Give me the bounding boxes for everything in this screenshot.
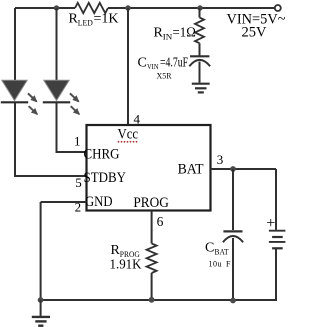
wire Vcc pin 4 bbox=[127, 8, 129, 125]
wire R_PROG to rail bbox=[151, 273, 153, 300]
ground main bbox=[32, 300, 50, 326]
wire GND pin 2 horizontal bbox=[41, 201, 87, 203]
svg-text:IN: IN bbox=[163, 32, 173, 42]
label C_BAT 10uF bbox=[205, 241, 231, 269]
pin number 3 bbox=[217, 152, 224, 167]
capacitor C_BAT bbox=[223, 231, 243, 301]
wire LED2 to CHRG pin 1 bbox=[56, 151, 87, 153]
svg-text:C: C bbox=[138, 56, 147, 71]
wire LED1 anode from rail bbox=[14, 8, 16, 81]
wire BAT pin 3 to battery bbox=[211, 168, 277, 170]
wire bottom rail bbox=[41, 299, 276, 301]
node junction dot at R_LED left bbox=[54, 5, 59, 10]
wire LED1 cathode down bbox=[14, 103, 16, 176]
label CHRG pin name bbox=[84, 147, 120, 163]
svg-text:STDBY: STDBY bbox=[84, 170, 127, 186]
label R_LED=1K bbox=[69, 12, 119, 28]
node junction dot R_PROG bottom bbox=[149, 297, 155, 303]
svg-text:+: + bbox=[266, 215, 275, 232]
label R_IN=1ohm bbox=[154, 26, 197, 42]
LED D2 bbox=[43, 80, 79, 114]
label C_VIN=4.7uF bbox=[138, 55, 189, 81]
node junction dot bottom left bbox=[38, 297, 44, 303]
svg-text:=1Ω: =1Ω bbox=[173, 26, 197, 41]
label battery plus bbox=[266, 215, 275, 232]
svg-text:BAT: BAT bbox=[178, 162, 204, 178]
svg-text:X5R: X5R bbox=[157, 71, 172, 81]
svg-text:LED: LED bbox=[78, 18, 93, 28]
svg-text:=4.7uF: =4.7uF bbox=[160, 55, 188, 70]
resistor R_PROG zigzag bbox=[147, 244, 157, 274]
svg-text:=1K: =1K bbox=[94, 12, 119, 27]
label R_PROG 1.91K bbox=[110, 243, 142, 273]
node junction dot at Vcc branch bbox=[125, 5, 130, 10]
pin number 5 bbox=[75, 175, 82, 190]
pin number 1 bbox=[74, 134, 81, 149]
wire top rail left segment bbox=[15, 7, 75, 9]
svg-text:6: 6 bbox=[157, 214, 164, 229]
svg-text:BAT: BAT bbox=[215, 248, 229, 257]
svg-text:5: 5 bbox=[75, 175, 82, 190]
battery BT1 bbox=[269, 231, 286, 249]
label BAT pin name bbox=[178, 162, 204, 178]
pin number 4 bbox=[134, 112, 141, 127]
wire LED2 cathode down bbox=[56, 103, 58, 152]
label STDBY pin name bbox=[84, 170, 127, 186]
pin number 2 bbox=[75, 200, 82, 215]
svg-text:C: C bbox=[205, 241, 214, 256]
wire LED1 to STDBY pin 5 bbox=[14, 175, 87, 177]
node junction dot at C_BAT top bbox=[230, 166, 236, 172]
svg-text:25V: 25V bbox=[242, 25, 267, 41]
LED D1 bbox=[1, 80, 37, 114]
node junction dot C_BAT bottom bbox=[230, 298, 236, 304]
wire battery bottom bbox=[275, 249, 277, 301]
wire GND pin 2 vertical bbox=[40, 202, 42, 300]
svg-text:Vcc: Vcc bbox=[118, 127, 139, 143]
label Vcc with dotted underline bbox=[118, 127, 139, 143]
svg-text:1: 1 bbox=[74, 134, 81, 149]
wire battery drop bbox=[275, 169, 277, 230]
svg-text:PROG: PROG bbox=[133, 195, 169, 211]
svg-text:GND: GND bbox=[85, 194, 113, 210]
resistor R_IN zigzag bbox=[195, 18, 204, 44]
svg-text:F: F bbox=[226, 260, 231, 269]
node junction dot at R_IN branch bbox=[197, 5, 202, 10]
resistor R_LED zigzag bbox=[75, 3, 108, 13]
pin number 6 bbox=[157, 214, 164, 229]
svg-text:1.91K: 1.91K bbox=[110, 258, 142, 273]
wire R_IN top stub bbox=[199, 8, 201, 18]
wire C_BAT top bbox=[232, 169, 234, 230]
wire PROG pin 6 bbox=[151, 211, 153, 244]
wire R_IN to C_VIN bbox=[199, 43, 201, 55]
wire LED2 anode from rail bbox=[56, 8, 58, 81]
label GND pin name bbox=[85, 194, 113, 210]
svg-text:3: 3 bbox=[217, 152, 224, 167]
wire top rail right segment bbox=[108, 7, 275, 9]
ground for C_VIN bbox=[192, 84, 210, 93]
label VIN=5V~ 25V bbox=[227, 12, 286, 41]
IC U1 body bbox=[87, 125, 211, 211]
capacitor C_VIN bbox=[189, 56, 210, 82]
svg-text:10u: 10u bbox=[209, 260, 222, 269]
terminal VIN open circle bbox=[275, 5, 281, 11]
svg-text:4: 4 bbox=[134, 112, 141, 127]
label PROG pin name bbox=[133, 195, 169, 211]
svg-text:CHRG: CHRG bbox=[84, 147, 120, 163]
